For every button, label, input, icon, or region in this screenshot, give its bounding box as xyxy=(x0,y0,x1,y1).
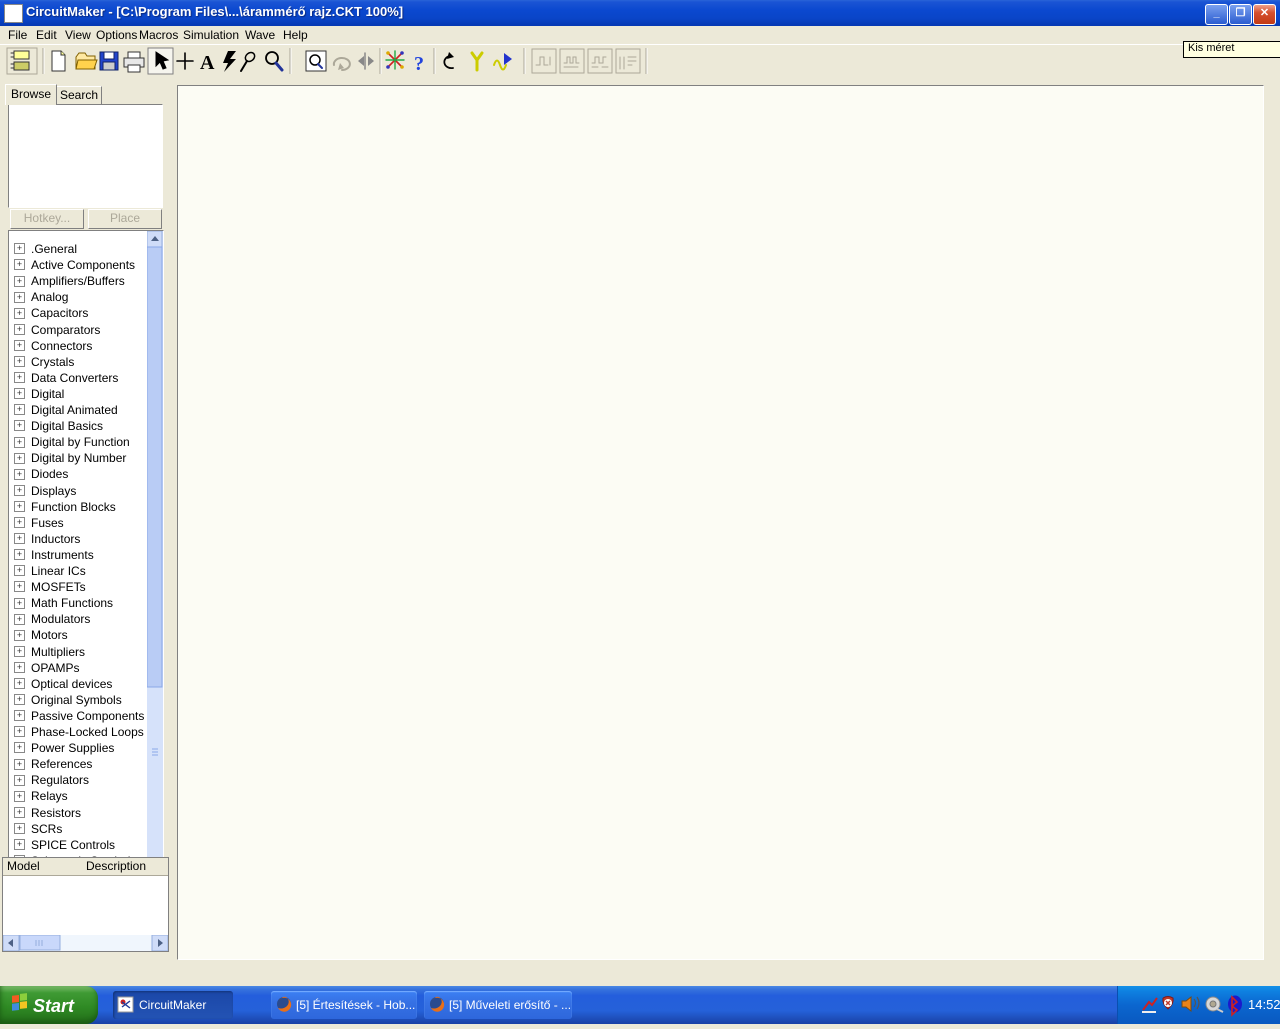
svg-text:[5] Műveleti erősítő - ...: [5] Műveleti erősítő - ... xyxy=(449,998,571,1012)
Hotkey / Place buttons xyxy=(10,209,84,229)
tooltip "Kis méret" xyxy=(1183,41,1280,58)
svg-text:14:52: 14:52 xyxy=(1248,997,1280,1012)
arrow tool (pressed) xyxy=(156,52,168,69)
horizontal scrollbar of model panel xyxy=(3,935,168,951)
wires tool xyxy=(388,53,402,67)
svg-text:Start: Start xyxy=(33,996,75,1016)
Browse/Search tabs xyxy=(5,84,57,105)
schematic area xyxy=(170,78,1280,974)
taskbar xyxy=(0,986,1280,1024)
tray icons xyxy=(1142,996,1242,1016)
preview box xyxy=(8,104,163,208)
probe xyxy=(244,51,257,64)
new xyxy=(52,51,65,71)
splitter arrows xyxy=(358,56,364,66)
wave probe xyxy=(494,61,506,70)
lightning xyxy=(223,51,236,72)
svg-text:[5] Értesítések - Hob...: [5] Értesítések - Hob... xyxy=(296,997,415,1012)
menu bar xyxy=(0,26,1280,44)
Y wrench xyxy=(472,53,482,70)
CircuitMaker task (active) xyxy=(113,991,233,1019)
separators xyxy=(43,48,647,74)
system tray xyxy=(1117,986,1280,1024)
left browse panel xyxy=(0,78,170,974)
reset circle arrow xyxy=(444,56,453,68)
print xyxy=(124,58,144,67)
svg-text:?: ? xyxy=(414,53,424,75)
open xyxy=(76,53,95,69)
rotate greyed xyxy=(334,58,350,70)
save xyxy=(100,52,118,70)
window title bar xyxy=(0,0,1280,26)
firefox task 1 xyxy=(271,991,417,1019)
model/description panel xyxy=(2,857,169,952)
browse icon xyxy=(14,51,29,59)
waveform buttons (greyed) xyxy=(532,49,640,73)
plus xyxy=(177,60,193,62)
component tree xyxy=(8,230,164,936)
start button xyxy=(0,986,98,1024)
button frames xyxy=(7,48,37,74)
firefox task 2 xyxy=(424,991,572,1019)
svg-text:A: A xyxy=(200,52,215,74)
svg-text:CircuitMaker: CircuitMaker xyxy=(139,998,206,1012)
boxed zoom xyxy=(306,51,326,71)
zoom xyxy=(266,52,278,64)
toolbar xyxy=(0,44,1280,79)
